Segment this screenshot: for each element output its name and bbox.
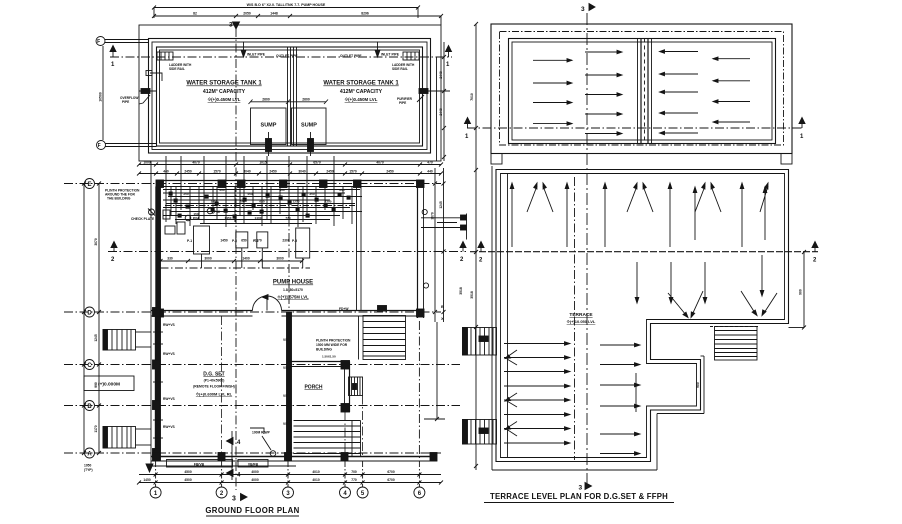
svg-text:2600: 2600 bbox=[302, 97, 310, 101]
svg-text:3040: 3040 bbox=[243, 169, 251, 173]
svg-text:FD+W: FD+W bbox=[339, 307, 349, 311]
svg-text:650: 650 bbox=[259, 200, 264, 204]
svg-text:C: C bbox=[87, 363, 92, 369]
svg-text:2: 2 bbox=[220, 491, 224, 497]
svg-text:B: B bbox=[87, 404, 92, 410]
svg-text:2450: 2450 bbox=[269, 169, 277, 173]
svg-text:1450: 1450 bbox=[143, 478, 151, 482]
svg-text:300: 300 bbox=[219, 188, 224, 192]
svg-text:⟐(+)1.575M LVL: ⟐(+)1.575M LVL bbox=[277, 295, 309, 300]
svg-text:1450: 1450 bbox=[211, 200, 218, 204]
svg-text:1: 1 bbox=[446, 62, 450, 68]
svg-text:1270: 1270 bbox=[254, 239, 262, 243]
svg-text:6: 6 bbox=[418, 491, 422, 497]
svg-text:1400: 1400 bbox=[255, 216, 262, 220]
svg-text:P06: P06 bbox=[214, 210, 220, 214]
svg-text:2: 2 bbox=[813, 258, 817, 264]
svg-text:P-2: P-2 bbox=[232, 239, 237, 243]
svg-text:P04: P04 bbox=[193, 217, 199, 221]
svg-text:3: 3 bbox=[232, 496, 236, 503]
svg-text:INLET PIPE: INLET PIPE bbox=[247, 53, 266, 57]
svg-text:E: E bbox=[87, 182, 91, 188]
svg-text:OUTLET PIPE: OUTLET PIPE bbox=[276, 54, 298, 58]
svg-text:⟐(+)0.450M LVL: ⟐(+)0.450M LVL bbox=[208, 97, 241, 102]
svg-text:RW+VS: RW+VS bbox=[163, 323, 176, 327]
svg-text:2450: 2450 bbox=[386, 169, 394, 173]
svg-text:(TYP): (TYP) bbox=[84, 468, 93, 472]
svg-text:P-1: P-1 bbox=[187, 239, 192, 243]
svg-text:6700: 6700 bbox=[387, 470, 395, 474]
svg-text:2450: 2450 bbox=[326, 169, 334, 173]
svg-text:SIDE RAIL: SIDE RAIL bbox=[392, 67, 408, 71]
svg-text:WATER STORAGE TANK 1: WATER STORAGE TANK 1 bbox=[186, 81, 262, 87]
svg-text:4500: 4500 bbox=[184, 470, 192, 474]
svg-text:W/S B.O 6" X2.0. TALL/TNK 7.7.: W/S B.O 6" X2.0. TALL/TNK 7.7. PUMP HOUS… bbox=[247, 3, 326, 7]
svg-text:RW+VS: RW+VS bbox=[163, 397, 176, 401]
svg-text:GROUND FLOOR PLAN: GROUND FLOOR PLAN bbox=[205, 506, 299, 515]
svg-text:900: 900 bbox=[799, 289, 803, 295]
svg-text:440: 440 bbox=[427, 169, 433, 173]
svg-text:3518: 3518 bbox=[470, 291, 474, 299]
svg-text:INLET PIPE: INLET PIPE bbox=[381, 53, 400, 57]
svg-text:RW+VS: RW+VS bbox=[163, 352, 176, 356]
svg-text:100M R/WP: 100M R/WP bbox=[252, 431, 271, 435]
svg-text:700: 700 bbox=[351, 470, 357, 474]
svg-text:X: X bbox=[441, 316, 444, 321]
svg-text:3518: 3518 bbox=[459, 287, 463, 295]
svg-text:PORCH: PORCH bbox=[304, 385, 322, 391]
svg-text:3000: 3000 bbox=[276, 257, 284, 261]
svg-text:3: 3 bbox=[579, 485, 583, 492]
svg-text:4010: 4010 bbox=[312, 470, 320, 474]
svg-text:250: 250 bbox=[183, 192, 188, 196]
svg-text:350: 350 bbox=[309, 192, 314, 196]
svg-text:PIPE: PIPE bbox=[122, 100, 129, 104]
svg-text:1245: 1245 bbox=[439, 201, 443, 209]
svg-text:2440: 2440 bbox=[439, 108, 443, 116]
svg-text:4000: 4000 bbox=[251, 470, 259, 474]
svg-text:⟐(+)10.050 LVL: ⟐(+)10.050 LVL bbox=[567, 319, 596, 324]
svg-text:3070: 3070 bbox=[94, 238, 98, 246]
svg-text:1050: 1050 bbox=[84, 464, 92, 468]
svg-text:VB/FB: VB/FB bbox=[248, 462, 259, 466]
svg-text:SUMP: SUMP bbox=[261, 123, 277, 129]
svg-text:2: 2 bbox=[479, 258, 483, 264]
svg-text:330: 330 bbox=[167, 257, 173, 261]
svg-text:2440: 2440 bbox=[439, 71, 443, 79]
svg-text:4070: 4070 bbox=[192, 160, 200, 164]
svg-text:770: 770 bbox=[285, 216, 290, 220]
svg-text:D: D bbox=[87, 311, 92, 317]
svg-text:2450: 2450 bbox=[184, 169, 192, 173]
svg-text:(P1-40x5900): (P1-40x5900) bbox=[204, 379, 225, 383]
svg-text:4500: 4500 bbox=[184, 478, 192, 482]
svg-text:770: 770 bbox=[351, 478, 357, 482]
svg-text:RW+VS: RW+VS bbox=[163, 425, 176, 429]
svg-text:OUTLET PIPE: OUTLET PIPE bbox=[340, 54, 362, 58]
svg-text:1: 1 bbox=[800, 134, 804, 140]
svg-text:D.G. SET: D.G. SET bbox=[203, 372, 224, 378]
svg-text:1450: 1450 bbox=[225, 216, 232, 220]
svg-text:PUMP HOUSE: PUMP HOUSE bbox=[273, 280, 313, 286]
svg-text:6700: 6700 bbox=[387, 478, 395, 482]
svg-text:3: 3 bbox=[581, 6, 585, 13]
svg-text:700: 700 bbox=[239, 200, 244, 204]
svg-text:470: 470 bbox=[427, 160, 433, 164]
svg-text:990: 990 bbox=[94, 382, 98, 388]
svg-text:F: F bbox=[98, 143, 101, 149]
svg-text:1500 MM WIDE FOR: 1500 MM WIDE FOR bbox=[316, 343, 348, 347]
svg-text:(+)0.000M: (+)0.000M bbox=[98, 382, 120, 388]
svg-text:(REMOTE FLOOR FINISH): (REMOTE FLOOR FINISH) bbox=[193, 385, 235, 389]
svg-text:1245: 1245 bbox=[94, 334, 98, 342]
svg-text:PIPE: PIPE bbox=[399, 101, 406, 105]
svg-text:F: F bbox=[97, 39, 100, 45]
svg-text:2050: 2050 bbox=[243, 12, 251, 16]
svg-text:2300: 2300 bbox=[282, 239, 290, 243]
svg-text:7010: 7010 bbox=[470, 93, 474, 101]
svg-text:4: 4 bbox=[237, 440, 241, 446]
svg-text:1400: 1400 bbox=[242, 257, 250, 261]
svg-text:150: 150 bbox=[193, 212, 198, 216]
svg-text:900: 900 bbox=[696, 382, 700, 388]
svg-text:3: 3 bbox=[229, 22, 233, 29]
svg-text:10500: 10500 bbox=[99, 92, 103, 102]
svg-text:1570: 1570 bbox=[213, 169, 221, 173]
svg-text:2: 2 bbox=[111, 257, 115, 263]
svg-text:412M³ CAPACITY: 412M³ CAPACITY bbox=[340, 89, 383, 95]
svg-text:2: 2 bbox=[460, 257, 464, 263]
svg-text:1: 1 bbox=[465, 134, 469, 140]
svg-text:1015: 1015 bbox=[259, 160, 267, 164]
svg-text:82: 82 bbox=[193, 12, 197, 16]
svg-text:3040: 3040 bbox=[298, 169, 306, 173]
svg-text:TERRACE: TERRACE bbox=[569, 312, 593, 318]
svg-text:3000: 3000 bbox=[204, 257, 212, 261]
svg-text:412M³ CAPACITY: 412M³ CAPACITY bbox=[203, 89, 246, 95]
svg-text:SIDE RAIL: SIDE RAIL bbox=[169, 67, 185, 71]
svg-text:2300: 2300 bbox=[325, 200, 332, 204]
svg-text:BUILDING: BUILDING bbox=[316, 348, 332, 352]
svg-text:450: 450 bbox=[247, 192, 252, 196]
svg-text:650: 650 bbox=[241, 239, 247, 243]
svg-text:1: 1 bbox=[111, 62, 115, 68]
svg-text:4000: 4000 bbox=[251, 478, 259, 482]
svg-text:1448: 1448 bbox=[270, 12, 278, 16]
svg-text:PLINTH PROTECTION: PLINTH PROTECTION bbox=[316, 339, 351, 343]
svg-text:5: 5 bbox=[361, 491, 365, 497]
svg-text:3: 3 bbox=[286, 491, 290, 497]
svg-text:1570: 1570 bbox=[349, 169, 357, 173]
svg-text:3070: 3070 bbox=[431, 212, 435, 220]
svg-text:4: 4 bbox=[237, 473, 241, 479]
svg-text:A: A bbox=[87, 452, 92, 458]
svg-text:600: 600 bbox=[279, 188, 284, 192]
svg-text:1170: 1170 bbox=[94, 425, 98, 432]
svg-text:1: 1 bbox=[154, 491, 158, 497]
svg-text:⟐(+)0.600M LVL RL: ⟐(+)0.600M LVL RL bbox=[196, 392, 233, 397]
svg-text:2600: 2600 bbox=[262, 97, 270, 101]
svg-text:⟐(+)0.450M LVL: ⟐(+)0.450M LVL bbox=[345, 97, 378, 102]
svg-text:CHECK PLATE: CHECK PLATE bbox=[131, 217, 155, 221]
svg-text:1270: 1270 bbox=[293, 200, 300, 204]
svg-text:1.50X1.50: 1.50X1.50 bbox=[322, 355, 336, 359]
svg-text:8296: 8296 bbox=[361, 12, 369, 16]
svg-text:B: B bbox=[441, 304, 444, 309]
svg-text:FB/VB: FB/VB bbox=[194, 462, 205, 466]
svg-text:WATER STORAGE TANK 1: WATER STORAGE TANK 1 bbox=[323, 81, 399, 87]
svg-text:1.8480=5170: 1.8480=5170 bbox=[283, 288, 303, 292]
svg-text:200: 200 bbox=[339, 188, 344, 192]
svg-text:P-5: P-5 bbox=[292, 239, 297, 243]
svg-text:4070: 4070 bbox=[376, 160, 384, 164]
svg-text:4: 4 bbox=[343, 491, 347, 497]
svg-text:SUMP: SUMP bbox=[301, 123, 317, 129]
svg-text:6570: 6570 bbox=[313, 160, 321, 164]
svg-text:1450: 1450 bbox=[220, 239, 228, 243]
svg-text:THE BUILDING: THE BUILDING bbox=[107, 197, 131, 201]
svg-text:TERRACE LEVEL PLAN FOR D.G: TERRACE LEVEL PLAN FOR D.G.SET & FFPH bbox=[490, 492, 668, 501]
svg-text:4010: 4010 bbox=[312, 478, 320, 482]
